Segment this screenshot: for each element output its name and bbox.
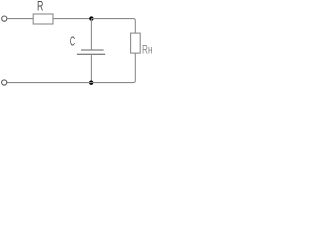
node A junction dot <box>89 16 93 20</box>
wire R to node A <box>53 18 91 20</box>
capacitor C top lead <box>90 19 92 50</box>
resistor R <box>33 14 53 24</box>
terminal T1 (top input) <box>2 16 7 21</box>
capacitor C bottom plate <box>77 53 105 55</box>
wire T1 to R <box>7 18 33 20</box>
wire node A to Rn top lead <box>91 19 135 33</box>
resistor Rн <box>131 33 141 53</box>
capacitor C bottom lead <box>90 54 92 82</box>
node B junction dot <box>89 80 93 84</box>
wire Rn bottom lead to node B to T2 <box>7 53 135 83</box>
svg-text:R: R <box>37 0 44 14</box>
svg-text:C: C <box>70 34 75 49</box>
terminal T2 (bottom input) <box>2 80 7 85</box>
svg-text:Rн: Rн <box>142 43 153 57</box>
capacitor C top plate <box>81 49 104 51</box>
